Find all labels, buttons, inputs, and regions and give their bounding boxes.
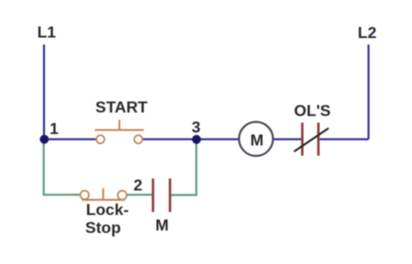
svg-text:START: START: [95, 100, 147, 117]
wire L2 vertical drop: [368, 45, 370, 140]
wire L1 vertical drop: [43, 45, 45, 140]
node 3 junction dot: [192, 135, 201, 144]
svg-text:2: 2: [134, 177, 143, 194]
pushbutton Lock-Stop (NC): [80, 188, 126, 200]
wire START to node3: [142, 138, 196, 140]
wire OL'S to L2 rail: [320, 138, 369, 140]
node L2 (line 2 power rail label): [358, 25, 377, 42]
svg-text:Lock-: Lock-: [86, 202, 129, 219]
wire coil M to OL'S: [273, 138, 301, 140]
svg-text:3: 3: [192, 119, 201, 136]
wire contact M up to node3: [171, 139, 196, 195]
svg-text:Stop: Stop: [85, 220, 121, 237]
svg-text:L1: L1: [37, 25, 56, 42]
coil M (motor starter coil): [239, 122, 273, 156]
contact M (NO sealing contact): [153, 179, 170, 213]
node 1 junction dot: [40, 135, 49, 144]
svg-text:M: M: [250, 132, 263, 149]
node L1 (line 1 power rail label): [37, 25, 56, 42]
wire node3 to coil M: [197, 138, 240, 140]
pushbutton START (NO): [95, 120, 144, 143]
wire node1 to START: [44, 138, 96, 140]
svg-text:M: M: [155, 218, 168, 235]
svg-text:L2: L2: [358, 25, 377, 42]
svg-text:1: 1: [50, 121, 59, 138]
wire Lock-Stop to contact M: [127, 194, 152, 196]
svg-text:OL'S: OL'S: [294, 103, 331, 120]
wire node1 down (green branch): [44, 139, 81, 194]
contact OL'S (overload NC contacts): [294, 123, 329, 156]
